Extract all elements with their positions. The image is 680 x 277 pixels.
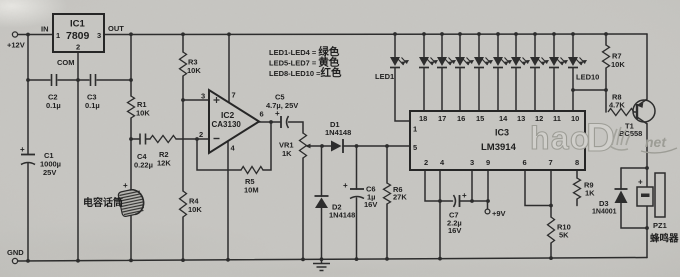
junction node (183,100) <box>181 98 185 102</box>
wire top supply rail <box>18 34 53 36</box>
junction node (606,34) <box>604 32 608 36</box>
junction node (472,201) <box>470 199 474 203</box>
junction node (516,34) <box>514 32 518 36</box>
junction node (131,34.3) <box>129 32 133 36</box>
wire LED7 column pin13 <box>515 34 517 57</box>
wire R8 to T1 base <box>634 111 637 113</box>
junction node (78,80) <box>76 78 80 82</box>
resistor R1 <box>128 96 151 118</box>
electret microphone <box>83 181 146 217</box>
svg-text:2: 2 <box>199 130 203 139</box>
svg-text:0.1µ: 0.1µ <box>85 101 100 110</box>
junction node (271,122) <box>269 120 273 124</box>
svg-text:2: 2 <box>76 43 80 52</box>
svg-text:7: 7 <box>232 91 236 100</box>
wire T1 emitter diagonal <box>637 100 647 107</box>
junction node (440,258.6) <box>438 257 442 261</box>
capacitor C6 <box>343 181 377 209</box>
svg-text:1K: 1K <box>585 189 595 198</box>
junction node (387,258.9) <box>385 257 389 261</box>
wire right vertical to T1 emitter <box>646 34 648 100</box>
LED7 <box>511 57 530 68</box>
wire D2 column <box>321 146 323 196</box>
junction node (322,146) <box>320 144 324 148</box>
wire D3 top connection <box>621 167 647 169</box>
junction node (28,34.5) <box>26 33 30 37</box>
svg-text:+12V: +12V <box>7 41 25 50</box>
junction node (498,34) <box>496 32 500 36</box>
terminal +12V <box>7 32 25 50</box>
svg-text:25V: 25V <box>43 168 56 177</box>
svg-text:8: 8 <box>575 158 579 167</box>
svg-text:4.7µ, 25V: 4.7µ, 25V <box>266 101 298 110</box>
wire LED2 column pin18 <box>423 34 425 57</box>
resistor R3 <box>180 52 202 76</box>
svg-text:hao: hao <box>530 120 589 156</box>
junction node (573,34) <box>571 32 575 36</box>
junction node (440,201) <box>438 199 442 203</box>
svg-text:16V: 16V <box>448 226 461 235</box>
junction node (131,139) <box>129 137 133 141</box>
svg-text:0.1µ: 0.1µ <box>46 101 61 110</box>
capacitor C5 <box>266 93 298 129</box>
LED5 <box>474 57 493 68</box>
regulator IC1 7809 <box>41 14 124 67</box>
junction node (228,259.8) <box>226 258 230 262</box>
LED9 <box>549 57 568 68</box>
wire LED6 column pin14 <box>497 34 499 57</box>
buzzer PZ1 <box>637 173 679 245</box>
wire IC3 pin9 lead and 9V stub <box>487 170 489 201</box>
capacitor C2 <box>46 74 61 110</box>
junction node (647,168) <box>645 166 649 170</box>
junction node (229,34.3) <box>227 32 231 36</box>
svg-text:10K: 10K <box>136 109 150 118</box>
svg-text:7809: 7809 <box>66 30 90 42</box>
wire op-amp pin4 column <box>227 141 229 260</box>
svg-text:+9V: +9V <box>492 209 506 218</box>
resistor R9 <box>574 178 596 199</box>
svg-text:1: 1 <box>56 31 60 40</box>
svg-text:3: 3 <box>470 158 474 167</box>
wire IC3 pin8 R9 column <box>576 170 578 178</box>
svg-text:16: 16 <box>457 114 465 123</box>
capacitor C4 <box>134 134 153 170</box>
wire C6 column <box>356 146 358 189</box>
junction node (356.5,259.1) <box>355 257 359 261</box>
svg-text:10K: 10K <box>611 60 625 69</box>
wire LED5 column pin15 <box>478 34 480 57</box>
junction node (479,34) <box>477 32 481 36</box>
wire op-amp output <box>259 121 280 123</box>
wire IC3 pin2 to ground node <box>425 170 440 201</box>
LED10 <box>568 57 599 82</box>
wire D1 cathode to IC3 pin5 <box>343 145 410 147</box>
wire R7 column <box>605 34 607 45</box>
wire LED1 column to IC3 pin1 <box>394 34 396 57</box>
svg-text:D: D <box>586 116 615 160</box>
svg-text:OUT: OUT <box>108 24 124 33</box>
wire R1 mic column <box>130 34 132 96</box>
junction node (356.5,146) <box>355 144 359 148</box>
wire signal line y139 <box>131 138 139 140</box>
wire IC3 pin3 lead <box>471 170 473 201</box>
wire R6 column <box>386 146 388 183</box>
svg-text:D3: D3 <box>599 199 609 208</box>
resistor R6 <box>384 183 408 204</box>
op-amp IC2 CA3130 <box>199 90 264 153</box>
capacitor C3 <box>85 74 100 110</box>
svg-text:5: 5 <box>413 143 417 152</box>
capacitor C1 <box>20 145 61 177</box>
junction node (488,201) <box>486 199 490 203</box>
svg-text:15: 15 <box>476 114 484 123</box>
svg-text:1N4001: 1N4001 <box>592 209 617 216</box>
wire D3 bottom connection <box>621 203 647 228</box>
svg-text:27K: 27K <box>393 193 407 202</box>
junction node (387,146) <box>385 144 389 148</box>
svg-text:18: 18 <box>419 114 427 123</box>
wire feedback loop <box>197 139 241 170</box>
terminal GND <box>7 248 24 264</box>
LED8 <box>530 57 549 68</box>
svg-text:1: 1 <box>413 125 417 134</box>
junction node (551,258.1) <box>549 256 553 260</box>
svg-text:+: + <box>20 145 25 154</box>
svg-text:3: 3 <box>201 92 205 101</box>
preset VR1 <box>279 133 311 158</box>
svg-text:16V: 16V <box>364 200 377 209</box>
wire LED8 column pin12 <box>534 34 536 57</box>
junction node (197,139) <box>195 137 199 141</box>
svg-text:IC2: IC2 <box>221 110 235 120</box>
wire IC3 pin4 column to ground <box>439 170 441 259</box>
junction node (131,260.4) <box>129 259 133 263</box>
svg-text:+: + <box>123 181 128 190</box>
junction node (28,260.9) <box>26 259 30 263</box>
LED4 <box>455 57 474 68</box>
wire C1 column <box>27 35 29 155</box>
resistor R8 <box>608 93 634 116</box>
svg-text:LED10: LED10 <box>576 73 599 82</box>
svg-text:+: + <box>638 178 643 187</box>
svg-text:PZ1: PZ1 <box>653 221 667 230</box>
resistor R2 <box>150 136 176 168</box>
junction node (551,205.5) <box>549 204 553 208</box>
terminal +9V <box>485 209 505 218</box>
svg-text:IN: IN <box>41 25 49 34</box>
svg-text:LED1: LED1 <box>375 72 394 81</box>
wire T1 collector diagonal <box>637 117 647 124</box>
wire ground rail <box>18 258 648 262</box>
junction node (460,34) <box>458 32 462 36</box>
resistor R4 <box>180 191 203 217</box>
svg-text:1N4148: 1N4148 <box>325 128 351 137</box>
junction node (535,34) <box>533 32 537 36</box>
svg-text:2: 2 <box>424 158 428 167</box>
wire op-amp pin3 lead <box>183 99 209 101</box>
wire VR1 bottom to ground <box>302 158 304 259</box>
wire LED3 column pin17 <box>441 34 443 57</box>
diode D2 <box>315 196 356 220</box>
wire IC3 pin6 lead <box>525 170 551 206</box>
resistor R7 <box>603 45 626 69</box>
watermark haoDY.net <box>530 116 677 160</box>
svg-text:IC1: IC1 <box>70 19 86 30</box>
junction node (395,34) <box>393 32 397 36</box>
wire R3 R4 column <box>182 34 184 52</box>
junction node (183,34.3) <box>181 32 185 36</box>
LED2 <box>419 57 438 68</box>
svg-text:14: 14 <box>499 114 508 123</box>
wire LED10 to R7 bottom <box>573 89 606 91</box>
svg-text:6: 6 <box>260 110 264 119</box>
svg-text:4.7K: 4.7K <box>609 101 625 110</box>
svg-text:9: 9 <box>486 158 490 167</box>
transistor T1 BC558 <box>619 100 655 138</box>
svg-text:5K: 5K <box>559 231 569 240</box>
svg-text:10K: 10K <box>188 205 202 214</box>
wire bypass line y80 segments C2 C3 <box>28 79 50 81</box>
wire supply line y201 with C7 <box>440 200 453 202</box>
svg-text:net: net <box>645 134 667 150</box>
resistor R10 <box>548 217 571 243</box>
svg-text:1K: 1K <box>282 149 292 158</box>
junction node (606,90) <box>604 88 608 92</box>
svg-text:IC3: IC3 <box>495 128 509 138</box>
wire LED10 column pin10 <box>572 34 574 57</box>
junction node (78,260.7) <box>76 259 80 263</box>
wire IC3 pin7 R10 column <box>550 170 552 217</box>
wire op-amp pin7 column <box>228 34 230 102</box>
junction node (321.5,259.3) <box>320 257 324 261</box>
junction node (442,34) <box>440 32 444 36</box>
diode D1 <box>325 120 351 153</box>
svg-text:蜂鸣器: 蜂鸣器 <box>650 233 679 245</box>
diode D3 <box>592 189 628 216</box>
junction node (647,228) <box>645 226 649 230</box>
LED color legend text <box>269 45 342 79</box>
LED6 <box>493 57 512 68</box>
wire LED4 column pin16 <box>459 34 461 57</box>
junction node (28,80) <box>26 78 30 82</box>
wire T1 collector down to ground <box>646 124 648 258</box>
svg-text:电容话筒: 电容话筒 <box>83 196 123 209</box>
LED1 <box>375 57 409 81</box>
svg-text:+: + <box>343 181 348 190</box>
svg-text:3: 3 <box>97 31 101 40</box>
junction node (303,259.4) <box>301 258 305 262</box>
svg-text:CA3130: CA3130 <box>212 120 242 129</box>
svg-text:COM: COM <box>57 58 75 67</box>
wire LED9 column pin11 <box>553 34 555 57</box>
svg-text:10K: 10K <box>187 66 201 75</box>
junction node (183,260.1) <box>181 258 185 262</box>
junction node (131,80) <box>129 78 133 82</box>
junction node (573,90) <box>571 88 575 92</box>
capacitor C7 <box>447 191 467 235</box>
wire VR1 wiper to D1 <box>310 145 332 147</box>
svg-text:10M: 10M <box>244 186 259 195</box>
resistor R5 <box>241 167 263 195</box>
svg-text:17: 17 <box>438 114 446 123</box>
junction node (554,34) <box>552 32 556 36</box>
svg-text:1N4148: 1N4148 <box>329 211 355 220</box>
svg-text:+: + <box>275 109 280 118</box>
svg-text:6: 6 <box>523 158 527 167</box>
svg-text:+: + <box>462 191 467 200</box>
junction node (424,34) <box>422 32 426 36</box>
wire COM column <box>77 52 79 261</box>
svg-text:LM3914: LM3914 <box>481 142 517 153</box>
svg-text:13: 13 <box>517 114 525 123</box>
svg-text:GND: GND <box>7 248 24 257</box>
svg-text:7: 7 <box>549 158 553 167</box>
svg-text:12K: 12K <box>157 159 171 168</box>
svg-text:0.22µ: 0.22µ <box>134 161 153 170</box>
LED3 <box>437 57 456 68</box>
IC3 LM3914 <box>410 111 585 170</box>
earth ground symbol <box>313 259 330 270</box>
